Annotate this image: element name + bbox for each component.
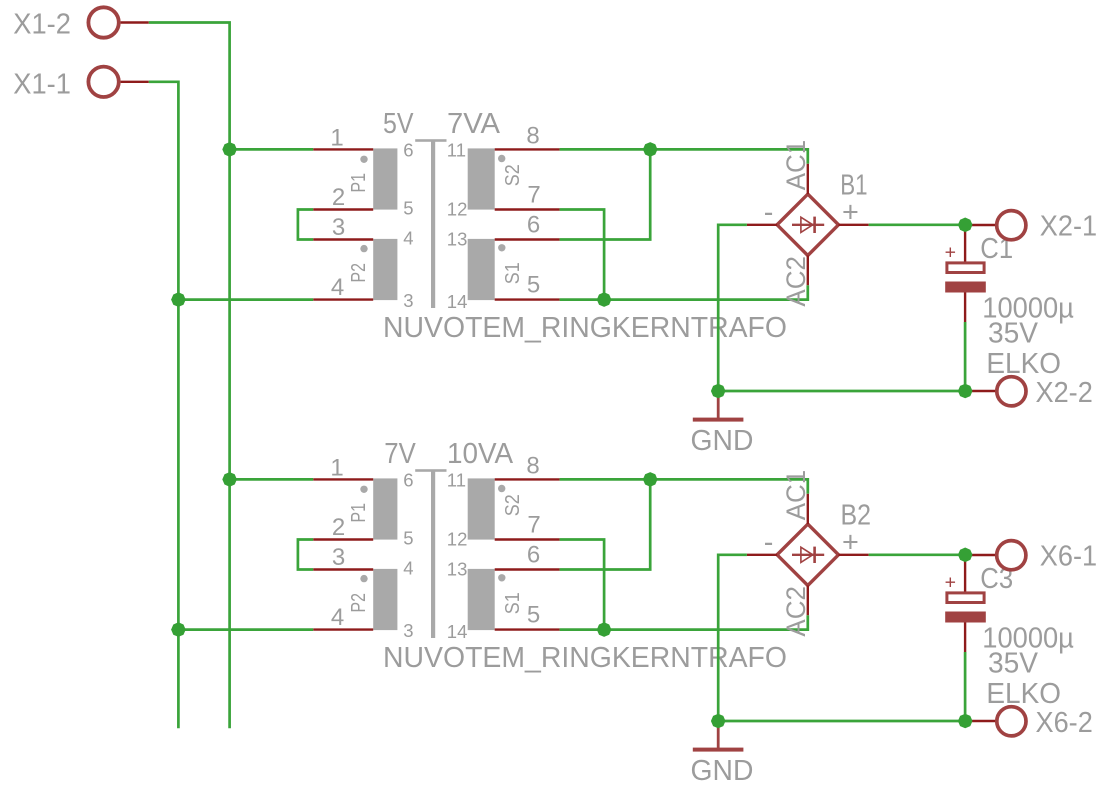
- junction rail/pin4 lower: [171, 622, 186, 637]
- wire rail to T1 pin1: [230, 148, 314, 151]
- junction B1 plus output: [958, 218, 973, 233]
- wire GND rail horizontal lower: [718, 720, 965, 723]
- junction AC2 net lower: [597, 622, 612, 637]
- svg-text:X6-2: X6-2: [1036, 707, 1093, 739]
- wire T1 pin6 up to AC1 net: [560, 149, 651, 239]
- svg-text:B1: B1: [840, 170, 867, 202]
- svg-text:7VA: 7VA: [447, 108, 501, 140]
- wire rail to T2 pin1: [230, 478, 314, 481]
- wire T2 pin8 to bridge AC1: [560, 479, 808, 493]
- connector X2-1 pin stub: [965, 224, 996, 226]
- wire B2 plus to output node: [869, 553, 966, 556]
- connector X6-1 pad: [997, 541, 1026, 570]
- svg-text:X1-2: X1-2: [13, 8, 71, 40]
- connector X1-1 pad: [88, 67, 118, 97]
- svg-text:7V: 7V: [384, 438, 416, 470]
- svg-text:NUVOTEM_RINGKERNTRAFO: NUVOTEM_RINGKERNTRAFO: [383, 312, 787, 344]
- svg-text:NUVOTEM_RINGKERNTRAFO: NUVOTEM_RINGKERNTRAFO: [383, 642, 787, 674]
- wire T1 pin5 to bridge AC2: [560, 285, 808, 299]
- wire T1 pin8 to bridge AC1: [560, 149, 808, 163]
- wire T2 pin5 to bridge AC2: [560, 615, 808, 629]
- capacitor C1: [945, 226, 986, 391]
- svg-text:5V: 5V: [383, 108, 414, 140]
- junction AC1 net: [643, 142, 658, 157]
- connector X2-2 pin stub: [965, 390, 997, 392]
- wire rail to T2 pin4: [178, 628, 313, 631]
- svg-text:X2-1: X2-1: [1040, 210, 1097, 242]
- wire X1-1 net vertical rail: [149, 82, 179, 729]
- junction AC2 net: [597, 292, 612, 307]
- svg-text:ELKO: ELKO: [986, 678, 1061, 710]
- svg-text:35V: 35V: [988, 318, 1039, 350]
- wire B1 plus to output node: [869, 223, 966, 226]
- capacitor C3: [945, 556, 986, 721]
- wire T2 pin6 up to AC1 net: [560, 479, 651, 569]
- wire T2 pin7 down to AC2 net: [560, 540, 605, 630]
- connector X1-2 pad: [88, 7, 118, 37]
- connector X1-1 pin stub: [121, 81, 149, 83]
- connector X6-1 pin stub: [965, 554, 996, 556]
- junction rail/pin1 lower: [222, 472, 237, 487]
- junction GND node: [711, 384, 726, 399]
- transformer T2: [313, 453, 559, 643]
- wire B1 minus to GND node: [718, 225, 747, 391]
- connector X6-2 pin stub: [965, 720, 997, 722]
- svg-text:X6-1: X6-1: [1040, 540, 1097, 572]
- wire GND rail horizontal: [718, 390, 965, 393]
- bridge rectifier B1: [747, 140, 869, 307]
- junction AC1 net lower: [643, 472, 658, 487]
- wire B2 minus to GND node: [718, 555, 747, 721]
- wire T1 pin2 to pin3: [298, 210, 313, 240]
- svg-text:10VA: 10VA: [447, 438, 514, 470]
- junction rail/pin1: [222, 142, 237, 157]
- wire rail to T1 pin4: [178, 298, 313, 301]
- wire T2 pin2 to pin3: [298, 540, 313, 570]
- wire X1-2 net vertical rail: [149, 23, 230, 729]
- svg-text:ELKO: ELKO: [986, 348, 1061, 380]
- junction C1 bottom: [958, 384, 973, 399]
- svg-text:35V: 35V: [988, 648, 1039, 680]
- junction rail/pin4: [171, 292, 186, 307]
- connector X6-2 pad: [997, 707, 1026, 736]
- connector X2-2 pad: [997, 377, 1026, 406]
- bridge rectifier B2: [747, 470, 869, 637]
- svg-text:X1-1: X1-1: [13, 68, 71, 100]
- svg-text:X2-2: X2-2: [1036, 377, 1093, 409]
- connector X1-2 pin stub: [121, 21, 149, 23]
- junction B2 plus output: [958, 548, 973, 563]
- ground GND2: [691, 721, 754, 787]
- junction GND node lower: [711, 714, 726, 729]
- transformer T1: [313, 123, 559, 313]
- junction C3 bottom: [958, 714, 973, 729]
- svg-text:B2: B2: [841, 500, 872, 532]
- ground GND1: [691, 391, 754, 457]
- wire T1 pin7 down to AC2 net: [560, 210, 605, 300]
- connector X2-1 pad: [997, 211, 1026, 240]
